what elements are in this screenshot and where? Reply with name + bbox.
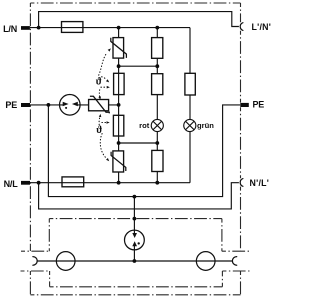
varistor RV2 (row4 left) — [111, 151, 126, 172]
enclosure border (dash-dot outer boundary) — [30, 3, 240, 295]
wire branch tie rows — [119, 65, 158, 67]
signal lamp gruen — [184, 119, 196, 131]
arrow theta1 to RV1 — [99, 53, 107, 76]
arrow theta1 down to RV3 — [98, 90, 101, 98]
arrowhead up to RV3 — [99, 114, 102, 117]
wire gruen branch — [189, 28, 191, 183]
arrow theta1 to T1 (horizontal) — [101, 86, 106, 88]
node N/L row left — [117, 181, 121, 185]
svg-text:ϑ: ϑ — [96, 76, 102, 87]
svg-text:PE: PE — [253, 100, 265, 110]
thermal disconnector box T1 (row2 left) — [114, 73, 125, 94]
arrowhead to T1 horizontal — [107, 86, 110, 89]
wire PE bottom loop to PE' — [48, 105, 240, 197]
svg-text:ϑ: ϑ — [96, 125, 102, 136]
terminal bottom-right socket arc — [232, 257, 236, 266]
arrow theta2 down to RV2 — [100, 134, 107, 159]
svg-text:PE: PE — [5, 100, 17, 110]
terminal PE — [21, 103, 30, 107]
varistor RV1 (row1 left) — [111, 38, 127, 59]
arrowhead down to RV3 — [98, 96, 101, 99]
terminal N'/L' socket arc — [240, 179, 243, 187]
svg-text:N/L: N/L — [4, 179, 19, 189]
arrow theta2 to T2 — [102, 122, 106, 124]
node compartment feed-through — [133, 217, 137, 221]
choke L1 (bottom left toroid) — [56, 252, 75, 271]
terminal PE' — [240, 103, 249, 107]
resistor R2 (row2 right) — [152, 74, 163, 95]
node row1 left — [117, 64, 121, 68]
node L/N tap — [37, 26, 41, 30]
terminal L'/N' socket arc — [240, 23, 243, 31]
resistor R4 (gruen branch) — [185, 73, 195, 95]
node bottom line / GDT — [133, 259, 137, 263]
node row0 right — [155, 26, 159, 30]
svg-text:N'/L': N'/L' — [250, 178, 270, 188]
spark gap F4 (bottom compartment) — [124, 230, 144, 250]
wire left branch vertical — [118, 28, 120, 183]
node row1 right — [155, 64, 159, 68]
thermal arrows (dotted) — [99, 53, 107, 159]
node row2 right — [155, 141, 159, 145]
node N/L row right — [155, 181, 159, 185]
resistor R3 (row3 right) — [152, 150, 163, 171]
arrowhead to T2 — [107, 121, 110, 124]
resistor R1 (row1 right) — [152, 38, 163, 59]
signal lamp rot — [151, 119, 163, 131]
svg-text:L/N: L/N — [3, 24, 17, 34]
arrow theta1 to T1 (upper) — [102, 77, 106, 80]
fuse F1 (L/N) — [62, 22, 83, 33]
inner shielded compartment border (dash-dot) — [21, 219, 251, 287]
arrowhead to T1 upper — [106, 79, 109, 82]
spark gap F3 (PE branch) — [60, 95, 81, 116]
choke L2 (bottom right toroid) — [196, 252, 215, 271]
arrow theta2 up to RV3 — [98, 117, 101, 125]
terminal N/L — [21, 181, 30, 185]
node row0 left — [117, 26, 121, 30]
arrowhead to RV2 — [106, 158, 109, 161]
node PE branch join — [117, 103, 121, 107]
node N/L tap — [37, 181, 41, 185]
node PE bus / GDT — [133, 195, 137, 199]
thermal disconnector box T2 (row3 left) — [113, 115, 123, 136]
varistor RV3 (horizontal, PE branch) — [89, 96, 110, 113]
svg-text:grün: grün — [197, 121, 214, 130]
wire N loop to N'/L' — [39, 183, 239, 209]
arrowhead to RV1 — [108, 48, 111, 51]
wire bottom line — [37, 260, 232, 262]
wire right branch vertical — [156, 28, 158, 183]
svg-text:L'/N': L'/N' — [252, 22, 272, 32]
wire L/N main through fuse F1 — [30, 27, 190, 29]
terminal bottom-left socket arc — [33, 257, 37, 266]
wire PE to left branch — [30, 104, 119, 106]
svg-text:rot: rot — [139, 121, 150, 130]
wire N/L main through fuse F2 — [30, 182, 190, 184]
terminal L/N — [21, 26, 30, 30]
node row2 left — [117, 141, 121, 145]
wire L/N to L'/N' top loop — [39, 12, 239, 28]
wire GDT drop — [133, 197, 135, 261]
fuse F2 (N/L) — [62, 177, 84, 187]
node PE tap — [47, 103, 51, 107]
